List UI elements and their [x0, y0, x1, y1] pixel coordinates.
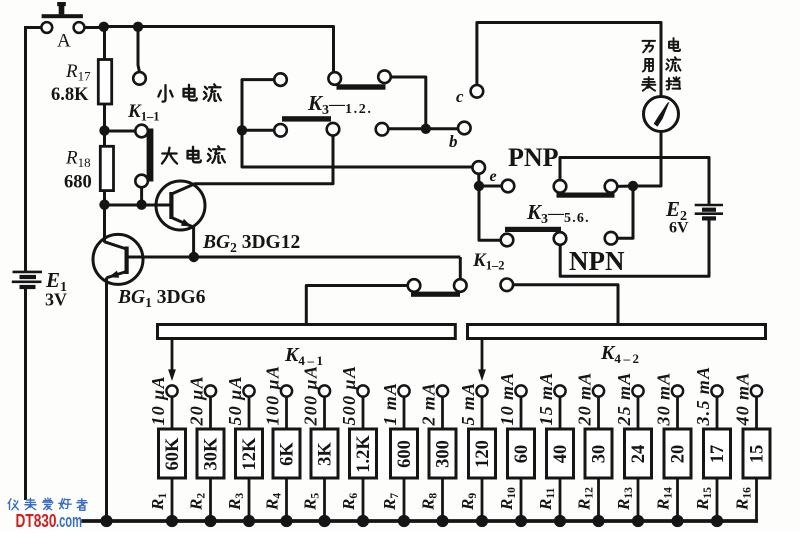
resistor R10 (60, 10 mA) — [497, 371, 535, 527]
wire: K1-1 upper contact drop — [138, 27, 140, 72]
svg-text:c: c — [456, 87, 464, 106]
wire: button left lead — [24, 26, 42, 29]
label dadianliu (large current) — [162, 148, 177, 164]
svg-text:6.8K: 6.8K — [51, 85, 89, 105]
resistor R11 (40, 15 mA) — [536, 371, 574, 527]
wire: K1-2 middle contact riser — [459, 257, 462, 279]
svg-text:1 mA: 1 mA — [380, 382, 400, 426]
resistor R12 (30, 20 mA) — [575, 371, 613, 527]
wire: R18 bottom down to BG1 collector — [103, 191, 106, 243]
wire: c terminal riser and top bus to meter — [477, 23, 661, 97]
svg-text:120: 120 — [473, 440, 493, 468]
svg-text:60: 60 — [512, 445, 532, 464]
svg-text:25 mA: 25 mA — [614, 371, 634, 426]
node meter junction — [628, 181, 638, 191]
wire: node to K3-5 upper-right contact — [617, 185, 633, 188]
svg-text:5 mA: 5 mA — [458, 382, 478, 426]
wire: button right lead to node — [84, 26, 105, 29]
svg-text:20 mA: 20 mA — [575, 371, 595, 426]
resistor R2 (30K, 20 µA) — [187, 375, 225, 527]
push button A — [42, 14, 83, 18]
svg-text:b: b — [449, 132, 458, 151]
node R17/R18 junction — [99, 125, 109, 135]
svg-text:15 mA: 15 mA — [536, 371, 556, 425]
wire: K3-1 left contacts common + run to e — [242, 80, 473, 167]
wire: left vertical bus from E1 down (fades at watermark) — [24, 288, 27, 501]
svg-text:60K: 60K — [163, 437, 183, 471]
wire: R17 bottom to R18 top — [103, 104, 106, 147]
svg-text:300: 300 — [434, 440, 454, 468]
svg-text:100 µA: 100 µA — [263, 365, 283, 426]
wire: BG2 emitter down to emitter bus — [192, 227, 195, 257]
wire: K3-2 upper-right contact over to b node — [391, 77, 426, 129]
transistor BG2 — [156, 181, 205, 230]
wire: left vertical bus from button down to E1 — [24, 26, 27, 271]
K4-2 wiper arrow — [481, 339, 484, 371]
resistor R1 (60K, 10 µA) — [148, 375, 186, 527]
label dianliudang (current range) — [669, 38, 680, 51]
resistor R4 (6K, 100 µA) — [263, 365, 301, 527]
svg-text:500 µA: 500 µA — [339, 365, 359, 426]
svg-text:40 mA: 40 mA — [733, 371, 753, 426]
svg-text:3.5 mA: 3.5 mA — [693, 366, 713, 427]
svg-text:20 µA: 20 µA — [187, 375, 207, 426]
svg-text:30 mA: 30 mA — [654, 371, 674, 426]
wire: E2 negative to K3-6 lower-middle — [560, 218, 709, 276]
switch K1-1 contacts — [133, 72, 146, 85]
svg-text:40: 40 — [551, 445, 571, 464]
node BG1 emitter on bus — [100, 515, 112, 527]
svg-text:BG1 3DG6: BG1 3DG6 — [117, 287, 206, 310]
node b junction — [421, 124, 431, 134]
svg-text:NPN: NPN — [569, 246, 625, 276]
wire: K1-2 left contact to K4-1 bar — [306, 286, 408, 325]
terminal c — [471, 85, 484, 98]
wire: e node down to K3-6 lower-left contact — [479, 186, 501, 240]
node emitter junction — [189, 252, 199, 262]
switch K1-2 contacts — [408, 279, 421, 292]
watermark yibiao aihaozhe — [8, 499, 18, 510]
K3-5.6 upper wiper bar — [557, 193, 615, 198]
svg-text:200 µA: 200 µA — [301, 365, 321, 427]
svg-text:50 µA: 50 µA — [225, 375, 245, 425]
switch K4-1 bar — [158, 325, 456, 339]
svg-text:e: e — [490, 168, 497, 185]
svg-text:20: 20 — [669, 445, 689, 464]
wire: BG2 collector to K3-1 lower contact — [195, 135, 333, 183]
resistor R14 (20, 30 mA) — [654, 371, 692, 527]
resistor R18 — [100, 146, 113, 190]
svg-text:6K: 6K — [278, 442, 298, 466]
node base-right junction — [136, 200, 146, 210]
resistor R9 (120, 5 mA) — [458, 382, 496, 527]
K4-1 wiper arrow — [171, 339, 174, 371]
transistor BG1 — [93, 234, 143, 284]
node K1-1 top junction — [133, 22, 143, 32]
terminal e — [472, 161, 485, 174]
svg-text:30: 30 — [590, 445, 610, 464]
terminal b — [458, 122, 471, 135]
resistor R8 (300, 2 mA) — [419, 382, 457, 527]
svg-text:DT830: DT830 — [16, 511, 57, 531]
svg-text:3K: 3K — [316, 442, 336, 466]
wire: R17/R18 node to K1-1 middle contact — [105, 130, 136, 133]
resistor R13 (24, 25 mA) — [614, 371, 652, 527]
svg-text:17: 17 — [708, 445, 728, 464]
switch K3-5.6 upper contacts — [502, 180, 515, 193]
K3-1.2 lower wiper bar — [282, 116, 331, 121]
wire: meter bottom to switch node — [633, 132, 661, 187]
wire: K3-5 upper-middle to E2 positive — [560, 158, 709, 206]
battery E2 — [695, 204, 723, 207]
K1-2 wiper bar — [411, 292, 460, 297]
resistor R7 (600, 1 mA) — [380, 382, 418, 527]
node e junction — [474, 181, 484, 191]
wire: K1-2 right contact to K4-2 bar — [513, 285, 618, 325]
wire: e node to K3-5 upper-left contact — [479, 185, 502, 188]
svg-text:680: 680 — [64, 173, 92, 193]
resistor R6 (1.2K, 500 µA) — [339, 365, 377, 527]
svg-text:6V: 6V — [669, 220, 689, 237]
wire: BG1 emitter down to bottom bus — [105, 278, 108, 522]
label wanyongbiao (multimeter) — [642, 41, 655, 53]
switch K3-5.6 lower contacts — [501, 234, 514, 247]
svg-text:.com: .com — [56, 511, 82, 531]
node K3-1 left junction — [237, 125, 247, 135]
battery E1 — [13, 271, 43, 274]
multimeter M — [644, 97, 679, 132]
K3-5.6 lower wiper bar — [505, 227, 561, 232]
switch K3-1.2 lower contacts — [274, 73, 287, 86]
wire: emitter bus BG1 base to K1-2 — [129, 256, 461, 259]
svg-text:3V: 3V — [45, 290, 67, 310]
svg-text:A: A — [57, 31, 71, 52]
label xiaodianliu (small current) — [158, 85, 172, 101]
switch K3-1.2 upper contacts — [328, 72, 341, 85]
svg-text:PNP: PNP — [508, 143, 559, 172]
svg-text:BG2 3DG12: BG2 3DG12 — [202, 232, 300, 255]
svg-text:2 mA: 2 mA — [419, 382, 439, 427]
node base-left junction — [99, 200, 109, 210]
K3-1.2 upper wiper bar — [337, 84, 386, 89]
wire: e terminal to node — [477, 174, 480, 186]
wire: K1-1 lower contact down to base node — [140, 187, 143, 204]
wire: node down to K3-6 lower-right contact — [617, 186, 633, 238]
resistor R16 (15, 40 mA) — [733, 371, 771, 521]
svg-text:600: 600 — [395, 440, 415, 468]
svg-text:12K: 12K — [240, 437, 260, 471]
wire: bottom bus — [82, 519, 759, 523]
resistor R17 — [98, 60, 111, 105]
wire: node to K3-1 lower-left contact — [242, 129, 274, 132]
resistor R15 (17, 3.5 mA) — [693, 366, 731, 528]
svg-text:30K: 30K — [202, 437, 222, 471]
wire: top bus A to K3-1 upper-middle contact — [104, 27, 334, 73]
switch K4-2 bar — [468, 325, 766, 339]
svg-text:1.2K: 1.2K — [354, 435, 374, 473]
svg-text:24: 24 — [629, 445, 649, 464]
svg-text:10 mA: 10 mA — [497, 371, 517, 425]
resistor R5 (3K, 200 µA) — [301, 365, 339, 527]
wire: K3-2 lower-right contact to b — [388, 127, 458, 130]
K1-1 wiper bar — [147, 129, 154, 182]
svg-text:10 µA: 10 µA — [148, 375, 168, 425]
wire: node A down to R17 — [103, 27, 106, 61]
resistor R3 (12K, 50 µA) — [225, 375, 263, 527]
wire: base node to BG2 base — [105, 204, 172, 207]
node A-right junction — [99, 22, 109, 32]
svg-text:15: 15 — [748, 445, 768, 464]
